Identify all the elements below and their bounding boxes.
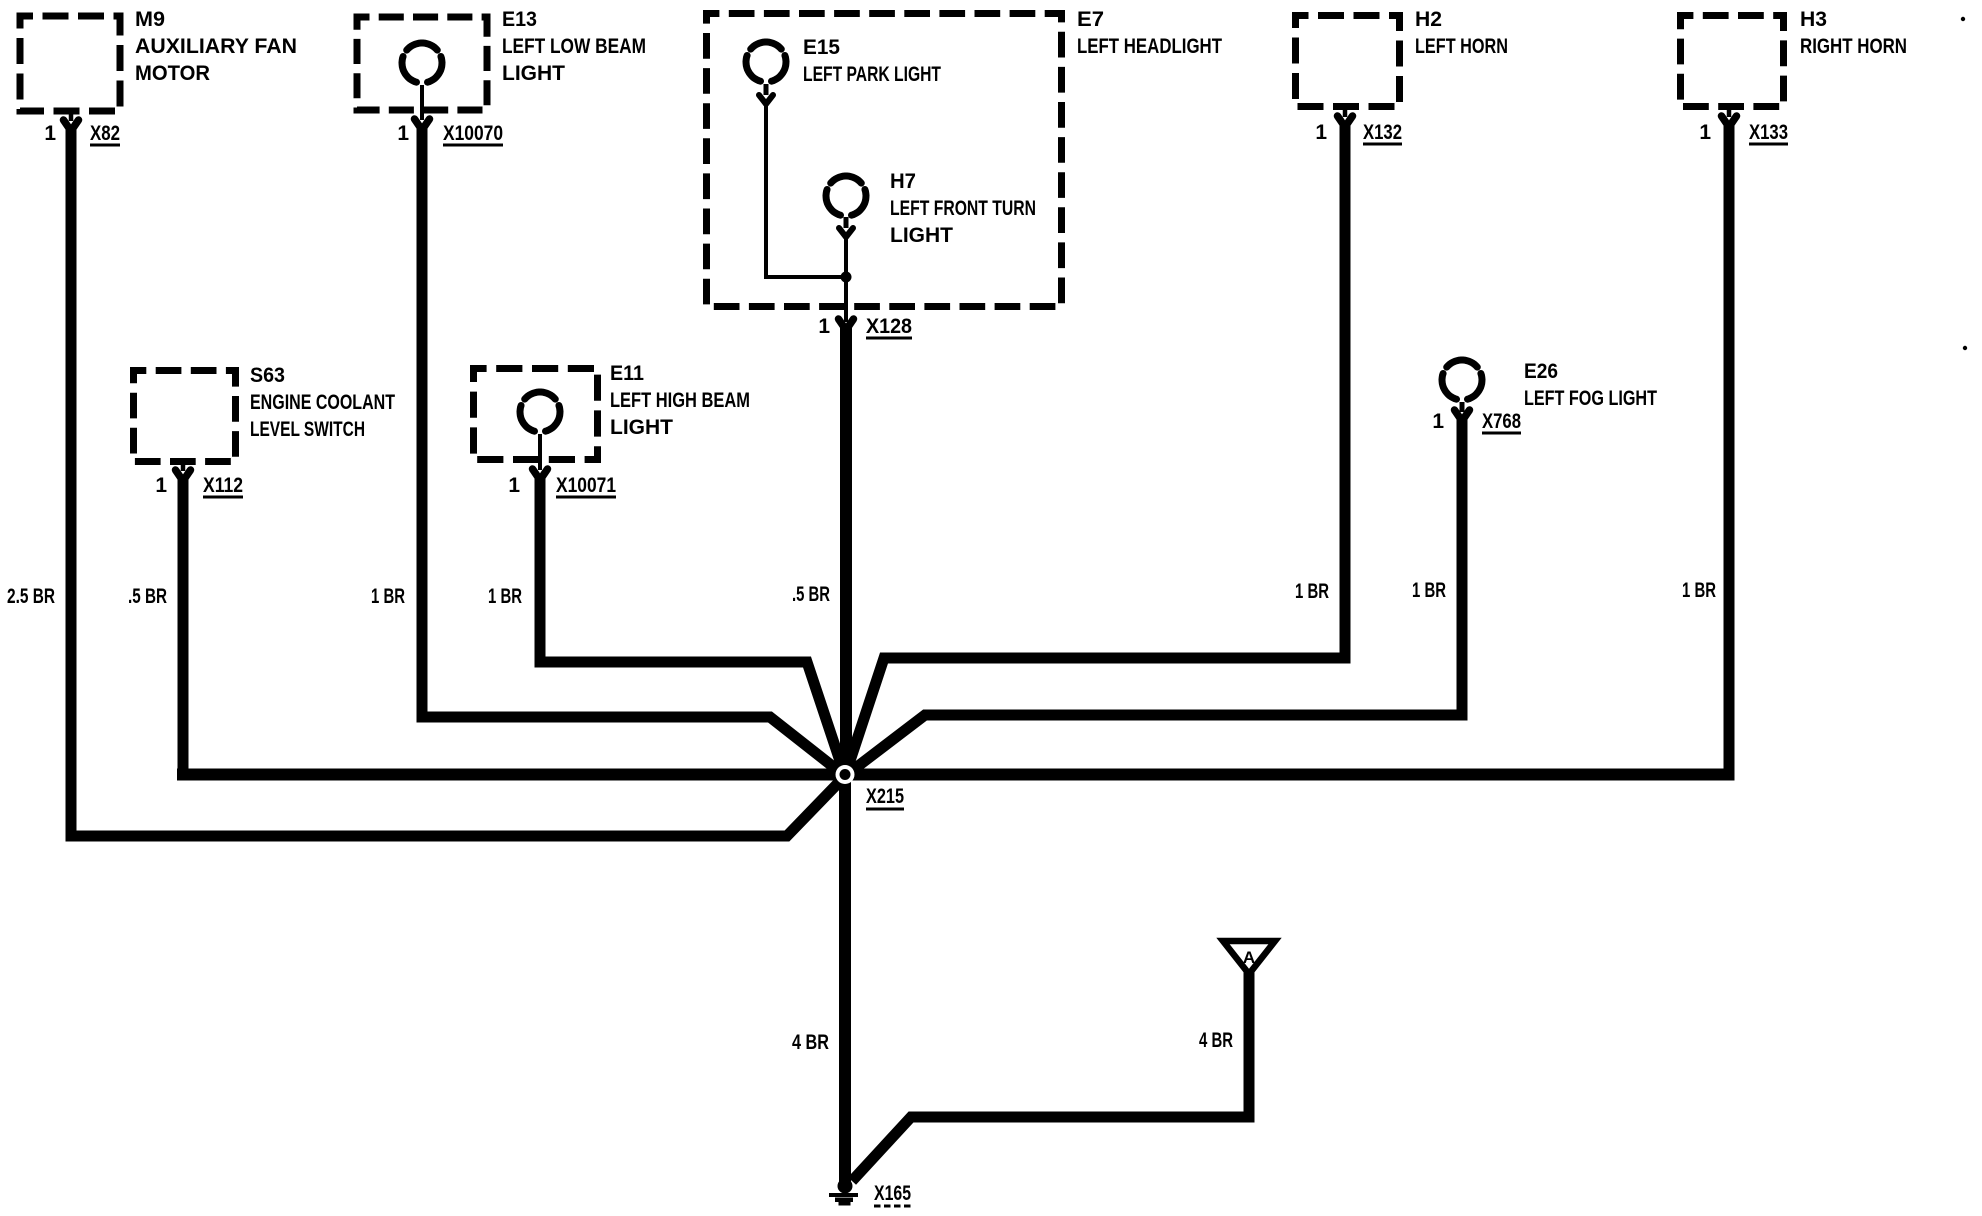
svg-text:1: 1 <box>818 315 830 338</box>
svg-text:4 BR: 4 BR <box>1199 1029 1233 1052</box>
svg-text:H2: H2 <box>1415 8 1442 31</box>
svg-text:RIGHT HORN: RIGHT HORN <box>1800 35 1907 58</box>
svg-text:1 BR: 1 BR <box>1682 579 1716 602</box>
svg-text:H7: H7 <box>890 170 916 193</box>
svg-text:4 BR: 4 BR <box>792 1031 829 1054</box>
svg-text:1: 1 <box>508 474 520 497</box>
svg-text:1: 1 <box>1315 121 1327 144</box>
svg-text:E26: E26 <box>1524 360 1558 383</box>
svg-text:X82: X82 <box>90 122 120 145</box>
svg-text:X132: X132 <box>1363 121 1402 144</box>
svg-text:1: 1 <box>155 474 167 497</box>
svg-text:E7: E7 <box>1077 8 1104 31</box>
svg-text:X10070: X10070 <box>443 122 503 145</box>
svg-text:1 BR: 1 BR <box>1412 579 1446 602</box>
svg-text:1 BR: 1 BR <box>488 585 522 608</box>
svg-text:X133: X133 <box>1749 121 1788 144</box>
svg-text:H3: H3 <box>1800 8 1827 31</box>
svg-text:LEFT HIGH BEAM: LEFT HIGH BEAM <box>610 389 750 412</box>
svg-text:.5 BR: .5 BR <box>128 585 167 608</box>
svg-text:E13: E13 <box>502 8 537 31</box>
svg-text:LEFT HORN: LEFT HORN <box>1415 35 1508 58</box>
svg-text:X128: X128 <box>866 315 912 338</box>
svg-text:1: 1 <box>397 122 409 145</box>
svg-text:LEFT FOG LIGHT: LEFT FOG LIGHT <box>1524 387 1657 410</box>
svg-text:E11: E11 <box>610 362 644 385</box>
svg-text:LIGHT: LIGHT <box>610 416 673 439</box>
svg-text:S63: S63 <box>250 364 285 387</box>
svg-text:X768: X768 <box>1482 410 1521 433</box>
svg-text:ENGINE COOLANT: ENGINE COOLANT <box>250 391 395 414</box>
svg-text:1 BR: 1 BR <box>1295 580 1329 603</box>
svg-text:E15: E15 <box>803 36 840 59</box>
svg-text:M9: M9 <box>135 8 165 31</box>
svg-text:X112: X112 <box>203 474 243 497</box>
svg-text:LIGHT: LIGHT <box>502 62 565 85</box>
svg-text:1: 1 <box>44 122 56 145</box>
svg-text:AUXILIARY FAN: AUXILIARY FAN <box>135 35 297 58</box>
svg-text:LEFT HEADLIGHT: LEFT HEADLIGHT <box>1077 35 1222 58</box>
svg-text:A: A <box>1243 948 1255 967</box>
svg-text:LEVEL SWITCH: LEVEL SWITCH <box>250 418 365 441</box>
svg-text:LEFT PARK LIGHT: LEFT PARK LIGHT <box>803 63 941 86</box>
svg-text:X10071: X10071 <box>556 474 616 497</box>
svg-text:1 BR: 1 BR <box>371 585 405 608</box>
svg-text:2.5 BR: 2.5 BR <box>7 585 55 608</box>
svg-text:.5 BR: .5 BR <box>792 583 830 606</box>
svg-text:X165: X165 <box>874 1182 911 1205</box>
svg-text:1: 1 <box>1432 410 1444 433</box>
svg-text:LEFT LOW BEAM: LEFT LOW BEAM <box>502 35 646 58</box>
svg-text:LEFT FRONT TURN: LEFT FRONT TURN <box>890 197 1036 220</box>
svg-text:MOTOR: MOTOR <box>135 62 210 85</box>
svg-text:LIGHT: LIGHT <box>890 224 953 247</box>
svg-text:X215: X215 <box>866 785 904 808</box>
svg-text:1: 1 <box>1699 121 1711 144</box>
